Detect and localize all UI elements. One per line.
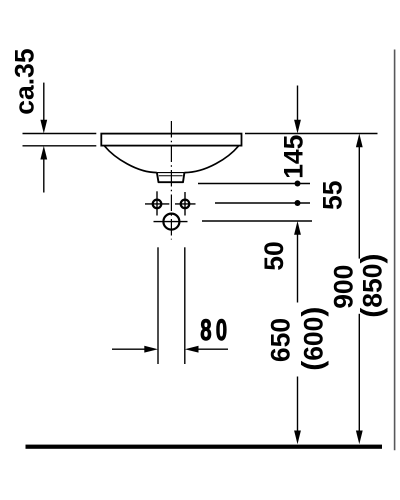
svg-text:80: 80 <box>200 314 231 347</box>
svg-text:(600): (600) <box>297 307 330 371</box>
svg-text:900: 900 <box>329 265 359 309</box>
svg-text:145: 145 <box>279 135 309 179</box>
svg-text:55: 55 <box>318 181 348 210</box>
svg-text:50: 50 <box>259 241 289 270</box>
svg-text:(850): (850) <box>356 253 389 317</box>
svg-text:650: 650 <box>266 318 296 362</box>
svg-text:ca.35: ca.35 <box>10 48 40 114</box>
